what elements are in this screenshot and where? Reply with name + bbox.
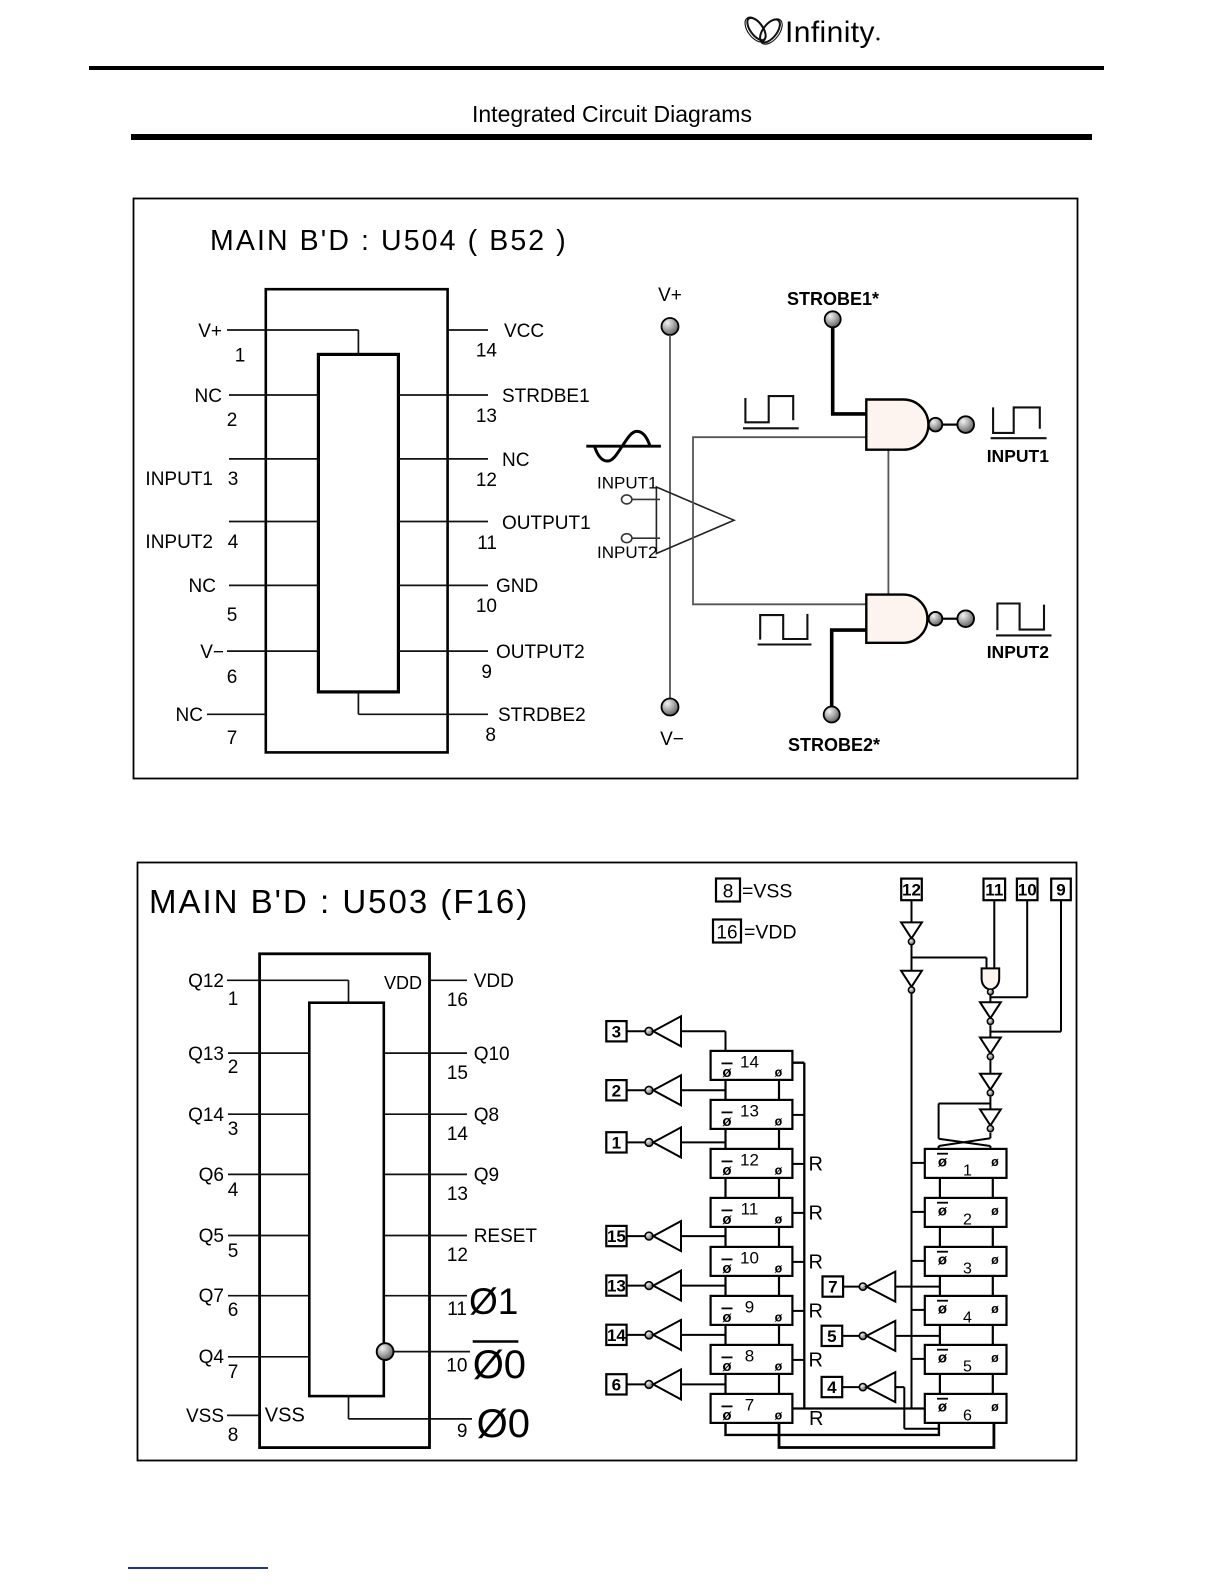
pin 12 wire RESET [384,1235,467,1237]
svg-text:Q9: Q9 [474,1165,499,1186]
svg-text:OUTPUT2: OUTPUT2 [496,642,585,663]
inverter A [901,922,922,944]
L chain stub wires [726,1227,780,1247]
svg-text:Q10: Q10 [474,1044,510,1065]
svg-text:14: 14 [447,1124,469,1145]
pin 1 wire V+ [227,330,358,354]
pin 14 wire VCC [448,329,488,331]
NAND gate G2 [866,595,927,643]
svg-text:STRDBE1: STRDBE1 [502,386,590,407]
pin 5 wire Q5 [228,1235,309,1237]
svg-text:6: 6 [227,667,238,688]
svg-text:8: 8 [228,1425,239,1446]
pin 8 wire VSS [227,1414,260,1416]
pin 2 wire Q13 [228,1052,309,1054]
svg-text:ø: ø [722,1407,732,1424]
svg-text:NC: NC [176,705,203,726]
svg-text:ø: ø [775,1163,783,1177]
svg-text:V+: V+ [658,285,682,306]
pin 16 wire VDD [430,979,468,981]
sine input symbol [586,431,661,461]
NAND gate G1 [866,400,928,450]
legend pin16 = VDD [713,920,741,943]
svg-text:ø: ø [722,1260,732,1277]
svg-text:R: R [809,1349,823,1371]
IC U504 package outline [266,289,448,752]
svg-text:NC: NC [189,576,216,597]
pin 13 wire Q9 [384,1173,467,1175]
svg-text:6: 6 [963,1407,972,1424]
7 wire to inverter [843,1286,859,1288]
svg-text:VDD: VDD [384,973,422,993]
wire A out / branch [912,945,987,971]
svg-text:NC: NC [195,386,222,407]
STROBE2 wire [832,630,867,706]
inverter 4 [867,1372,896,1402]
L chain stub wires [726,1374,780,1394]
svg-text:INPUT2: INPUT2 [145,532,213,553]
wire 12 to inverter A [911,900,913,922]
svg-text:16: 16 [716,923,737,944]
svg-text:ø: ø [991,1351,999,1365]
wire inv13 tap [681,1285,726,1287]
IC U504 die outline [318,354,398,692]
wire C out / branch 9 [990,900,1061,1037]
supply rail wire [669,335,671,699]
svg-text:V−: V− [200,642,224,663]
svg-text:ø: ø [991,1253,999,1267]
inverter 15 [653,1221,681,1251]
svg-text:15: 15 [447,1063,468,1084]
svg-text:9: 9 [1056,881,1065,900]
svg-text:ø: ø [775,1261,783,1275]
wire E to F / loop branch [939,1097,991,1139]
svg-text:7: 7 [228,1362,239,1383]
svg-text:R: R [809,1153,823,1175]
svg-text:=VSS: =VSS [742,881,792,903]
wire inv1 tap [681,1141,726,1143]
svg-text:12: 12 [902,881,921,900]
svg-text:STRDBE2: STRDBE2 [498,705,586,726]
svg-text:8: 8 [723,882,734,903]
crossover wires [939,1138,991,1149]
op-amp to gates wire [693,437,866,604]
pin 15 wire Q10 [384,1052,467,1054]
svg-text:VCC: VCC [504,321,544,342]
svg-text:INPUT2: INPUT2 [597,543,657,562]
inverter B [901,971,922,993]
flip-flop L10 box [711,1247,793,1276]
wire inv14 tap [681,1334,726,1336]
svg-text:Q5: Q5 [199,1226,224,1247]
pin box 1 [606,1132,626,1152]
Infinity logo [744,5,894,55]
inverter bubble 4 [859,1384,866,1391]
pin 14 wire Q8 [384,1113,467,1115]
1 wire to inverter [627,1141,646,1143]
svg-text:R: R [809,1300,823,1322]
svg-text:6: 6 [228,1300,239,1321]
pin 6 wire Q7 [228,1295,309,1297]
svg-text:ø: ø [775,1310,783,1324]
svg-text:Q8: Q8 [474,1105,499,1126]
svg-text:VDD: VDD [474,971,514,992]
svg-text:11: 11 [741,1199,759,1218]
inverter 5 [867,1321,896,1351]
svg-text:5: 5 [227,605,238,626]
pin 2 wire NC [229,394,318,396]
NAND gate G3 [982,968,1000,989]
wire inv15 tap [681,1235,726,1237]
svg-text:INPUT1: INPUT1 [987,446,1049,466]
svg-text:ø: ø [722,1358,732,1375]
header rule top [89,66,1104,70]
pin box 9 [1051,879,1071,901]
G1 output wire [942,424,957,426]
INPUT1 input wire [632,498,660,500]
inverter 14 [653,1320,681,1350]
svg-text:INPUT1: INPUT1 [145,469,213,490]
svg-text:9: 9 [481,662,492,683]
svg-text:10: 10 [476,596,497,617]
STROBE1 wire [833,327,867,414]
INPUT1 input circle [622,495,632,504]
svg-text:14: 14 [476,341,498,362]
svg-text:INPUT2: INPUT2 [987,642,1049,662]
op-amp U1 [656,487,734,554]
reset row 7 wire [792,1407,925,1409]
pin 4 wire INPUT2 [229,521,318,523]
clock feed stubs [912,1163,925,1359]
pin 3 wire Q14 [228,1113,309,1115]
wire inv7 tap [895,1286,940,1288]
flip-flop R1 box [925,1149,1007,1178]
svg-text:Q7: Q7 [199,1286,224,1307]
pin box 3 [606,1021,626,1041]
STROBE1 terminal [825,311,841,327]
G2 output wire [942,618,957,620]
pin 10 label phi0 bar [473,1340,519,1343]
flip-flop R3 box [925,1247,1007,1276]
STROBE2 terminal [824,707,840,723]
pin box 6 [606,1374,626,1394]
svg-text:12: 12 [740,1150,759,1169]
14 wire to inverter [627,1334,646,1336]
flip-flop R6 box [925,1394,1007,1423]
5 wire to inverter [842,1335,859,1337]
svg-text:STROBE1*: STROBE1* [787,289,879,309]
svg-text:10: 10 [446,1356,467,1377]
svg-text:Q6: Q6 [199,1165,224,1186]
svg-text:6: 6 [612,1375,621,1394]
svg-text:Ø1: Ø1 [469,1281,518,1322]
L chain stub wires [726,1276,780,1296]
L chain stub wires [726,1325,780,1345]
reset bus taps [792,1115,804,1360]
15 wire to inverter [627,1235,646,1237]
svg-text:ø: ø [991,1400,999,1414]
3 wire to inverter [627,1030,646,1032]
svg-text:3: 3 [963,1260,972,1277]
svg-text:1: 1 [228,989,239,1010]
wire F out [989,1133,991,1138]
svg-text:Q13: Q13 [188,1044,224,1065]
pin 3 wire INPUT1 [229,458,318,460]
pin box 7 [823,1276,844,1296]
inverter 1 [653,1127,681,1157]
svg-text:Ø0: Ø0 [473,1343,526,1387]
wire gate out / branch 10 [990,900,1027,1002]
svg-text:Ø0: Ø0 [477,1402,530,1446]
svg-text:13: 13 [740,1101,759,1120]
flip-flop R2 box [925,1198,1007,1227]
svg-text:2: 2 [963,1211,972,1228]
pin 9 wire OUTPUT2 [398,650,488,652]
inverter bubble 13 [645,1282,653,1290]
svg-text:Q14: Q14 [188,1105,224,1126]
svg-text:12: 12 [447,1245,468,1266]
svg-text:3: 3 [228,469,239,490]
pin 5 wire NC [229,584,318,586]
wire inv2 tap [681,1089,726,1091]
svg-text:Q12: Q12 [188,971,224,992]
6 wire to inverter [627,1383,646,1385]
svg-text:INPUT1: INPUT1 [597,474,657,493]
pin box 15 [606,1226,626,1246]
svg-text:ø: ø [991,1302,999,1316]
svg-text:1: 1 [612,1133,621,1152]
INPUT1 output terminal [957,416,974,433]
strobe pulse waveform 1 [743,396,799,428]
pin 11 wire OUTPUT1 [398,521,488,523]
V- terminal [662,699,679,716]
svg-text:ø: ø [722,1113,732,1130]
inverter 13 [653,1271,681,1301]
svg-text:ø: ø [722,1309,732,1326]
svg-text:ø: ø [938,1398,948,1415]
R chain stub wires [940,1325,993,1345]
pin 8 wire STRDBE2 [358,692,488,714]
svg-text:15: 15 [607,1227,626,1246]
pin 6 wire V- [227,650,318,652]
svg-text:=VDD: =VDD [744,922,797,944]
svg-text:ø: ø [722,1162,732,1179]
reset bus wire [792,1063,804,1409]
inverter bubble 7 [859,1283,866,1290]
svg-text:ø: ø [938,1349,948,1366]
svg-text:14: 14 [740,1052,759,1071]
L7 to R6 wire [726,1423,939,1435]
svg-text:9: 9 [457,1421,468,1442]
legend pin8 = VSS [716,879,740,902]
svg-text:3: 3 [228,1119,239,1140]
pin 10 die terminal [377,1343,394,1360]
svg-text:7: 7 [227,728,238,749]
svg-text:RESET: RESET [474,1226,538,1247]
svg-text:Q4: Q4 [199,1347,225,1368]
inverter 6 [653,1369,681,1399]
svg-text:VSS: VSS [265,1405,305,1427]
svg-text:ø: ø [775,1065,783,1079]
wire inv4 to R6 [895,1387,939,1429]
wire D to E [989,1061,991,1074]
svg-text:ø: ø [775,1408,783,1422]
svg-text:ø: ø [991,1204,999,1218]
inverter D [980,1038,1001,1060]
R chain stub wires [940,1227,993,1247]
pin box 11 [984,879,1006,901]
inverter bubble 5 [859,1332,866,1339]
svg-text:11: 11 [985,881,1003,900]
pin box 5 [822,1326,843,1346]
svg-text:9: 9 [745,1297,754,1316]
svg-text:NC: NC [502,450,529,471]
flip-flop L13 box [711,1100,793,1129]
R chain stub wires [940,1374,993,1394]
INPUT2 output waveform [996,604,1052,636]
svg-text:7: 7 [828,1278,837,1297]
svg-text:11: 11 [477,533,497,554]
INPUT2 output terminal [957,610,974,627]
inverter bubble 15 [645,1232,653,1240]
IC U503 die outline [309,1003,384,1396]
inverter 3 [653,1016,681,1046]
panel box U503 [138,863,1077,1461]
svg-text:ø: ø [775,1212,783,1226]
inverter C [980,1002,1001,1024]
svg-text:2: 2 [612,1081,621,1100]
svg-text:R: R [809,1408,823,1430]
svg-text:16: 16 [447,990,468,1011]
pin 4 wire Q6 [228,1173,309,1175]
inverter bubble 6 [645,1381,653,1389]
svg-text:STROBE2*: STROBE2* [788,735,880,755]
inverter bubble 14 [645,1331,653,1339]
svg-text:ø: ø [938,1251,948,1268]
pin 7 wire NC [207,713,266,715]
svg-text:13: 13 [607,1277,626,1296]
strobe pulse waveform 2 [758,614,812,645]
R chain stub wires [940,1276,993,1296]
header rule bottom [131,134,1092,140]
pin 1 wire Q12 [227,980,349,1002]
page title [472,101,872,128]
inverter 7 [867,1272,896,1302]
panel frame 1 [134,199,1078,779]
pin box 14 [606,1325,626,1345]
svg-text:5: 5 [228,1241,239,1262]
svg-text:3: 3 [612,1022,621,1041]
L chain stub wires [726,1080,780,1100]
pin 10 wire GND [398,584,488,586]
svg-text:OUTPUT1: OUTPUT1 [502,513,591,534]
svg-text:14: 14 [607,1326,626,1345]
svg-text:GND: GND [496,576,538,597]
pin box 2 [606,1080,626,1100]
pin box 12 [901,879,922,901]
pin 12 wire NC [398,458,488,460]
svg-text:R: R [809,1251,823,1273]
svg-text:10: 10 [1018,881,1037,900]
13 wire to inverter [627,1285,646,1287]
svg-text:8: 8 [485,725,496,746]
flip-flop L14 box [711,1051,793,1080]
svg-text:11: 11 [447,1299,467,1320]
svg-text:13: 13 [447,1184,468,1205]
gate cascade wire [887,450,889,595]
wire inv5 tap [895,1335,940,1337]
pin 11 wire phi1 [384,1295,467,1297]
R6 feedback wire [779,1423,994,1448]
svg-text:ø: ø [991,1155,999,1169]
svg-text:ø: ø [938,1300,948,1317]
svg-text:ø: ø [722,1211,732,1228]
svg-text:8: 8 [745,1346,754,1365]
inverter bubble 2 [645,1086,653,1094]
svg-text:12: 12 [476,470,497,491]
clock bus vertical [911,993,913,1408]
svg-text:ø: ø [775,1359,783,1373]
flip-flop L11 box [711,1198,793,1227]
svg-text:4: 4 [827,1378,837,1397]
R chain stub wires [940,1178,993,1198]
IC U503 package outline [260,954,430,1448]
svg-text:2: 2 [228,1057,239,1078]
inverter bubble 1 [645,1139,653,1147]
svg-text:MAIN B'D : U503 (F16): MAIN B'D : U503 (F16) [149,883,529,920]
pin box 10 [1017,879,1038,901]
svg-text:1: 1 [963,1162,972,1179]
inverter 2 [653,1075,681,1105]
svg-text:R: R [809,1202,823,1224]
svg-text:4: 4 [228,1180,239,1201]
svg-text:5: 5 [827,1327,836,1346]
svg-text:13: 13 [476,406,497,427]
INPUT1 output waveform [991,407,1047,438]
wire 11 to gate [993,900,995,968]
flip-flop L9 box [711,1296,793,1325]
svg-text:ø: ø [938,1153,948,1170]
svg-text:ø: ø [938,1202,948,1219]
inverter bubble 3 [645,1027,653,1035]
flip-flop R5 box [925,1345,1007,1374]
svg-text:4: 4 [228,532,239,553]
INPUT2 input wire [632,537,660,539]
pin 9 wire phi0 [349,1396,473,1419]
flip-flop L12 box [711,1149,793,1178]
INPUT2 input circle [622,534,632,543]
2 wire to inverter [627,1089,646,1091]
pin 7 wire Q4 [228,1356,309,1358]
G1 output bubble [929,418,943,432]
svg-text:ø: ø [722,1064,732,1081]
flip-flop R4 box [925,1296,1007,1325]
footer mark [128,1567,268,1569]
svg-text:1: 1 [235,346,246,367]
wire inv6 tap [681,1383,726,1385]
flip-flop L8 box [711,1345,793,1374]
svg-text:5: 5 [963,1358,972,1375]
svg-text:ø: ø [775,1114,783,1128]
svg-text:V−: V− [660,729,684,750]
wire inv3 to L14 [681,1031,726,1051]
svg-text:VSS: VSS [186,1406,224,1427]
4 wire to inverter [842,1386,859,1388]
svg-text:4: 4 [963,1309,972,1326]
svg-text:10: 10 [740,1248,759,1267]
G2 output bubble [929,612,943,626]
svg-text:V+: V+ [198,321,222,342]
